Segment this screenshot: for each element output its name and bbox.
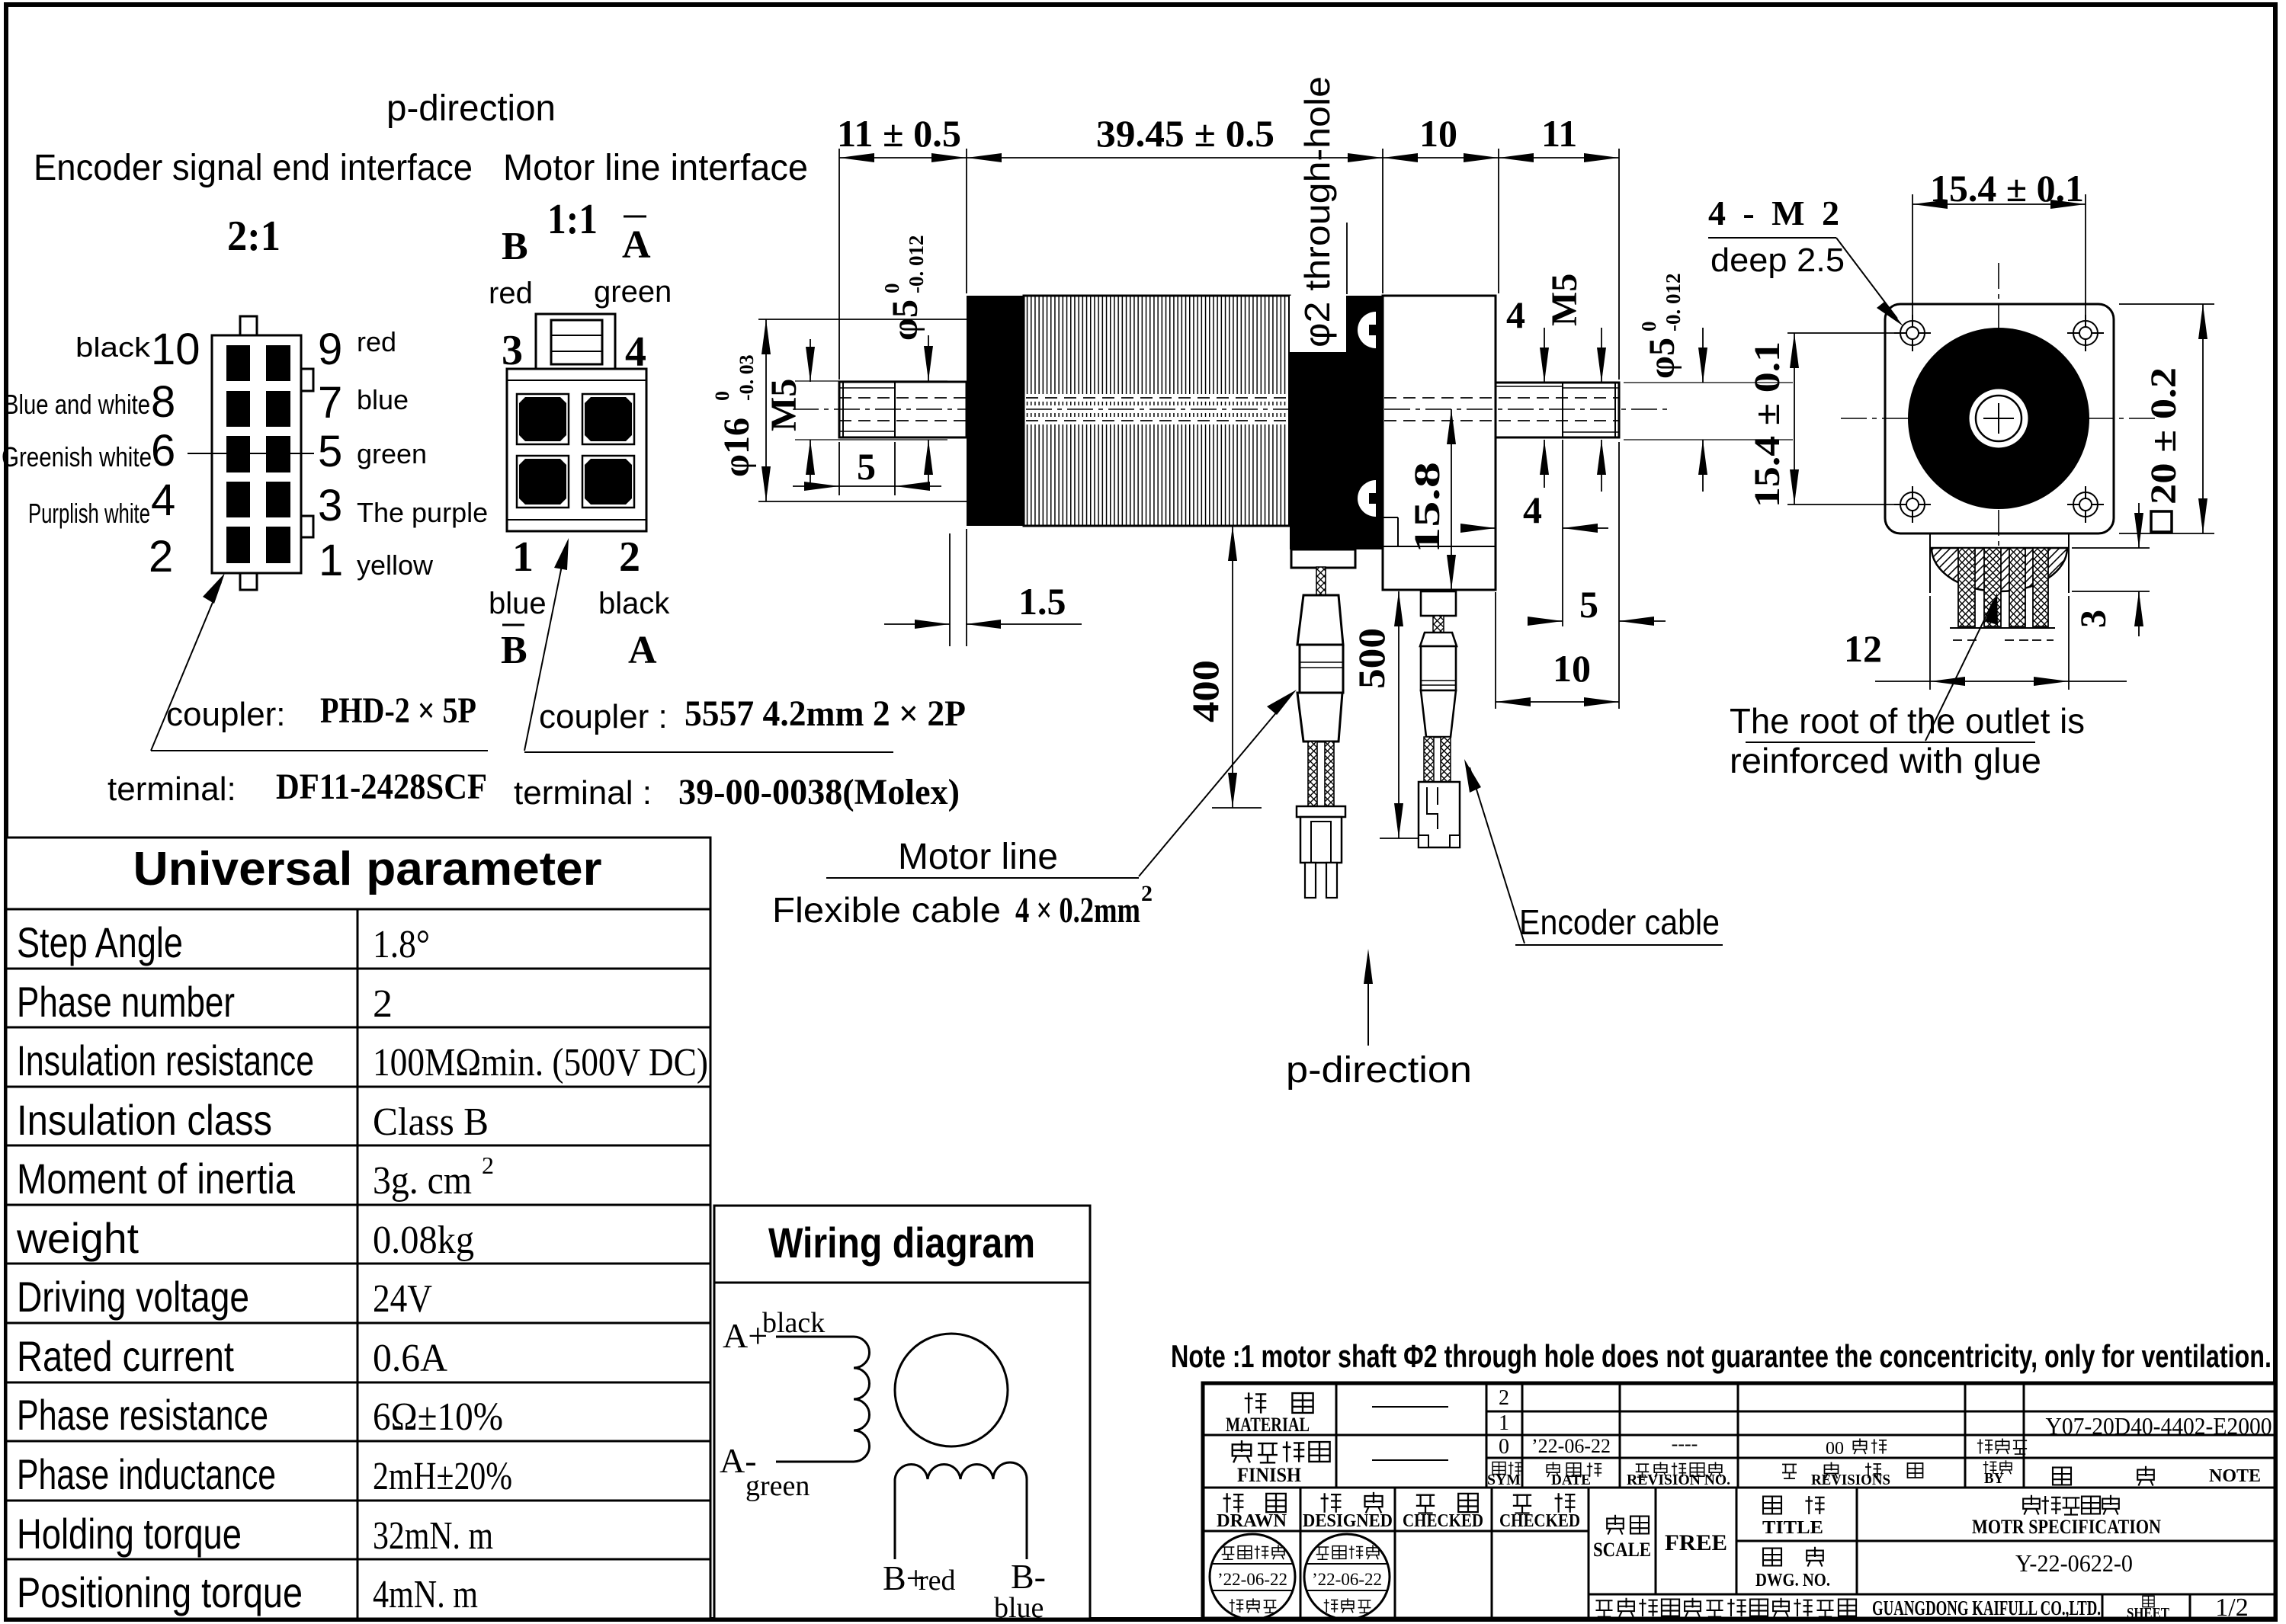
- encoder cable braid: [1433, 616, 1444, 633]
- svg-text:----: ----: [1672, 1433, 1698, 1455]
- svg-text:Blue and white: Blue and white: [4, 389, 150, 420]
- dim 5 (front thread length): [793, 442, 941, 495]
- encoder wires braided: [1424, 737, 1434, 782]
- encoder plug barrel: [1421, 646, 1456, 690]
- svg-text:Phase number: Phase number: [17, 978, 235, 1026]
- svg-text:00: 00: [1826, 1439, 1844, 1459]
- svg-text:Class B: Class B: [373, 1100, 489, 1144]
- svg-text:A: A: [622, 223, 651, 267]
- svg-text:3: 3: [2073, 610, 2114, 628]
- motor line wires braided: [1308, 742, 1317, 806]
- J2 pin 2 cavity: [582, 456, 634, 508]
- cell designed: [1321, 1493, 1342, 1513]
- screw hole bottom-left: [1894, 486, 1931, 523]
- svg-text:4 × 0.2mm: 4 × 0.2mm: [1015, 890, 1140, 931]
- p-direction arrow: [1367, 954, 1369, 1046]
- svg-text:green: green: [357, 438, 427, 469]
- svg-text:The purple: The purple: [357, 497, 488, 528]
- svg-text:400: 400: [1184, 660, 1226, 722]
- svg-text:Moment of inertia: Moment of inertia: [17, 1155, 296, 1203]
- cell checked1: [1416, 1495, 1435, 1513]
- title block frame: [1203, 1383, 2275, 1619]
- svg-text:1.8°: 1.8°: [373, 923, 430, 966]
- connector J1 encoder 10-pin body: [212, 316, 313, 590]
- svg-text:’22-06-22: ’22-06-22: [1217, 1570, 1287, 1589]
- encoder housing outline: [1383, 296, 1496, 590]
- front shaft thread root lines: [839, 387, 895, 389]
- cell sheet: [2143, 1596, 2154, 1606]
- motor rear shaft: [1496, 383, 1619, 437]
- svg-text:DRAWN: DRAWN: [1217, 1511, 1287, 1531]
- svg-text:Wiring diagram: Wiring diagram: [768, 1219, 1035, 1267]
- svg-text:0: 0: [880, 283, 903, 294]
- rear shaft thread root lines: [1563, 387, 1619, 389]
- svg-text:0.08kg: 0.08kg: [373, 1219, 474, 1262]
- svg-text:green: green: [594, 275, 672, 309]
- svg-text:NOTE: NOTE: [2209, 1466, 2261, 1486]
- header REVISIONS: [1782, 1465, 1797, 1479]
- svg-text:9: 9: [318, 325, 342, 374]
- svg-text:Purplish white: Purplish white: [28, 498, 150, 529]
- title value: [2023, 1495, 2040, 1515]
- svg-text:Y07-20D40-4402-E2000: Y07-20D40-4402-E2000: [2046, 1412, 2272, 1440]
- svg-text:red: red: [919, 1565, 956, 1597]
- svg-text:100MΩmin. (500V DC): 100MΩmin. (500V DC): [373, 1041, 708, 1084]
- svg-text:blue: blue: [489, 587, 547, 620]
- motor line cable braid: [1316, 567, 1326, 597]
- svg-text:φ2 through-hole: φ2 through-hole: [1297, 76, 1337, 348]
- label glue note: [1730, 593, 2085, 780]
- svg-text:Universal parameter: Universal parameter: [133, 843, 602, 895]
- svg-text:deep 2.5: deep 2.5: [1710, 242, 1845, 279]
- stamp designed circle: [1304, 1534, 1390, 1619]
- svg-text:Insulation resistance: Insulation resistance: [17, 1036, 314, 1084]
- svg-text:yellow: yellow: [357, 549, 434, 581]
- dim phi5 (rear): [1624, 274, 1793, 492]
- motor line plug boot lower: [1297, 693, 1342, 742]
- svg-text:0: 0: [1637, 322, 1660, 332]
- svg-text:5557 4.2mm 2 × 2P: 5557 4.2mm 2 × 2P: [685, 693, 966, 734]
- J1 pins column2: [266, 345, 290, 563]
- svg-text:Holding torque: Holding torque: [17, 1510, 242, 1558]
- leader Motor line: [1139, 697, 1290, 876]
- svg-text:0: 0: [711, 391, 733, 401]
- svg-text:B: B: [501, 629, 527, 672]
- svg-text:Driving voltage: Driving voltage: [17, 1273, 249, 1321]
- svg-text:2: 2: [619, 533, 640, 581]
- svg-text:black: black: [762, 1307, 825, 1339]
- rotor circle: [895, 1334, 1008, 1446]
- svg-text:2mH±20%: 2mH±20%: [373, 1455, 512, 1498]
- header DATE: [1547, 1462, 1560, 1477]
- svg-text:15.4 ± 0.1: 15.4 ± 0.1: [1747, 341, 1787, 508]
- svg-text:A: A: [628, 629, 657, 672]
- svg-text:M5: M5: [1544, 274, 1585, 326]
- svg-text:1/2: 1/2: [2215, 1594, 2248, 1622]
- svg-text:φ5: φ5: [885, 299, 925, 341]
- connector J2 motor line 4-pin body: [507, 369, 646, 531]
- svg-text:8: 8: [151, 377, 175, 427]
- svg-text:Positioning torque: Positioning torque: [17, 1568, 303, 1616]
- dim 39.45±0.5: [967, 112, 1383, 293]
- svg-text:SHEET: SHEET: [2127, 1605, 2170, 1622]
- dim 15.4±0.1 vertical: [1747, 333, 1906, 508]
- title block lower section lines: [1203, 1488, 2275, 1619]
- cell scale: [1607, 1515, 1624, 1535]
- svg-text:1: 1: [512, 533, 534, 581]
- svg-text:Flexible cable: Flexible cable: [772, 890, 1001, 930]
- encoder plug boot upper: [1420, 633, 1457, 646]
- svg-text:REVISIONS: REVISIONS: [1811, 1472, 1890, 1488]
- svg-text:M5: M5: [764, 379, 804, 431]
- svg-text:-0. 012: -0. 012: [1662, 274, 1685, 332]
- svg-text:Encoder cable: Encoder cable: [1519, 902, 1720, 942]
- svg-text:’22-06-22: ’22-06-22: [1531, 1435, 1611, 1457]
- svg-text:4: 4: [151, 476, 175, 525]
- svg-text:10: 10: [1553, 647, 1591, 690]
- svg-text:DESIGNED: DESIGNED: [1303, 1511, 1393, 1531]
- svg-text:black: black: [75, 332, 151, 363]
- motor front shaft: [839, 382, 967, 437]
- dim 15.8: [1407, 409, 1456, 590]
- main center line: [793, 408, 1669, 410]
- svg-text:7: 7: [318, 378, 342, 428]
- svg-text:2: 2: [1499, 1386, 1509, 1410]
- svg-text:blue: blue: [357, 384, 409, 415]
- svg-text:black: black: [598, 587, 670, 620]
- dim 11 (rear shaft): [1499, 112, 1619, 380]
- label phi2 through-hole: [1297, 76, 1337, 348]
- svg-text:red: red: [489, 277, 533, 310]
- connector J2 motor line 4-pin latch: [536, 314, 615, 369]
- front view square flange: [1885, 304, 2114, 533]
- svg-text:Encoder signal end interface: Encoder signal end interface: [34, 148, 473, 188]
- leader Encoder cable: [1470, 767, 1525, 943]
- svg-text:BY: BY: [1984, 1470, 2005, 1487]
- dim 5 (rear thread): [1528, 442, 1666, 709]
- encoder plug housing: [1419, 782, 1460, 847]
- svg-text:B-: B-: [1011, 1557, 1046, 1596]
- svg-text:10: 10: [1419, 112, 1457, 155]
- screw hole bottom-right: [2067, 486, 2104, 523]
- title block top section lines: [1203, 1383, 2275, 1488]
- svg-text:coupler:: coupler:: [166, 696, 286, 733]
- revision by name: [1977, 1439, 1993, 1453]
- svg-text:A+: A+: [723, 1316, 768, 1355]
- svg-text:11: 11: [1541, 112, 1577, 155]
- svg-text:1: 1: [319, 536, 343, 585]
- svg-text:24V: 24V: [373, 1277, 432, 1321]
- coil B: [895, 1462, 1027, 1559]
- rear cap screw pocket top: [1358, 312, 1392, 348]
- svg-text:4: 4: [1523, 488, 1542, 531]
- dim 4 (rear shaft length): [1460, 440, 1608, 533]
- dim M5 (front): [764, 339, 815, 484]
- front view center lines: [1841, 263, 2157, 579]
- svg-text:2: 2: [1141, 881, 1153, 906]
- svg-text:The root of the outlet is: The root of the outlet is: [1730, 701, 2085, 741]
- dim square 20±0.2: [2119, 304, 2214, 533]
- svg-text:blue: blue: [994, 1592, 1044, 1624]
- svg-text:SYM: SYM: [1487, 1472, 1521, 1488]
- svg-text:2: 2: [373, 982, 393, 1026]
- dim 500: [1350, 591, 1418, 838]
- stamp drawn circle: [1210, 1534, 1295, 1619]
- svg-text:2: 2: [482, 1152, 494, 1179]
- dim 4 (rear shaft dia upper): [1506, 293, 1549, 488]
- J1 mating center line: [188, 453, 314, 454]
- rear cap phi2 text notch: [1290, 296, 1346, 352]
- svg-text:weight: weight: [16, 1214, 139, 1262]
- svg-text:FREE: FREE: [1665, 1530, 1727, 1555]
- screw hole top-left: [1894, 315, 1931, 351]
- dim phi16: [711, 319, 967, 501]
- header REVISION NO: [1636, 1464, 1649, 1477]
- dim phi5 (front): [795, 235, 947, 488]
- svg-text:6Ω±10%: 6Ω±10%: [373, 1395, 503, 1439]
- svg-text:500: 500: [1350, 628, 1393, 689]
- leader to J1 coupler: [151, 582, 221, 751]
- svg-text:4mN. m: 4mN. m: [373, 1573, 478, 1616]
- svg-text:’22-06-22: ’22-06-22: [1312, 1570, 1382, 1589]
- svg-text:0: 0: [1499, 1435, 1509, 1459]
- svg-text:B: B: [502, 225, 528, 268]
- front shaft thread section line: [894, 382, 896, 437]
- dim 11±0.5: [837, 112, 1619, 380]
- universal parameter table frame: [6, 838, 710, 1619]
- svg-text:CHECKED: CHECKED: [1403, 1511, 1483, 1531]
- svg-text:p-direction: p-direction: [1286, 1050, 1472, 1091]
- motor line plug housing: [1297, 806, 1345, 898]
- cell material: [1245, 1392, 1267, 1413]
- label 4-M2 deep 2.5: [1708, 194, 1903, 326]
- svg-text:Y-22-0622-0: Y-22-0622-0: [2015, 1549, 2133, 1577]
- svg-text:green: green: [745, 1470, 810, 1502]
- svg-text:Motor line: Motor line: [898, 837, 1058, 877]
- svg-text:MOTR SPECIFICATION: MOTR SPECIFICATION: [1972, 1516, 2161, 1538]
- svg-text:11 ± 0.5: 11 ± 0.5: [837, 112, 961, 155]
- J2 pin 4 cavity: [582, 394, 634, 444]
- svg-text:FINISH: FINISH: [1237, 1464, 1301, 1486]
- outlet block below flange: [1930, 533, 2069, 593]
- svg-text:φ5: φ5: [1642, 338, 1682, 379]
- front view rotor black circle: [1908, 328, 2089, 509]
- svg-text:5: 5: [318, 427, 342, 476]
- coil A: [776, 1337, 870, 1462]
- phi2 through hole hidden lines: [839, 398, 1619, 421]
- wiring diagram box: [714, 1206, 1090, 1619]
- outlet pin end lines: [1950, 627, 2055, 629]
- svg-text:39.45 ± 0.5: 39.45 ± 0.5: [1096, 112, 1274, 155]
- svg-text:Step Angle: Step Angle: [17, 918, 183, 966]
- svg-text:10: 10: [151, 325, 200, 374]
- cell title: [1763, 1497, 1781, 1514]
- svg-text:terminal:: terminal:: [107, 770, 236, 808]
- front view shaft: [1968, 388, 2029, 449]
- svg-text:2:1: 2:1: [227, 213, 281, 260]
- svg-text:CHECKED: CHECKED: [1499, 1511, 1580, 1531]
- svg-text:4: 4: [625, 328, 646, 376]
- svg-text:DWG. NO.: DWG. NO.: [1755, 1571, 1830, 1590]
- svg-text:-0. 03: -0. 03: [736, 354, 758, 401]
- svg-text:0.6A: 0.6A: [373, 1337, 447, 1380]
- svg-text:p-direction: p-direction: [386, 88, 556, 129]
- dim 15.4±0.1 horizontal: [1912, 167, 2086, 324]
- screw hole top-right: [2067, 315, 2104, 351]
- header BY: [1983, 1461, 1997, 1474]
- svg-text:15.4 ± 0.1: 15.4 ± 0.1: [1930, 167, 2084, 210]
- dim 12: [1844, 596, 2127, 690]
- svg-text:Insulation class: Insulation class: [17, 1096, 272, 1144]
- encoder plug boot lower: [1421, 690, 1456, 737]
- svg-text:5: 5: [857, 445, 876, 488]
- dim 10 (rear housing): [1383, 112, 1499, 293]
- header SYM: [1492, 1462, 1505, 1475]
- svg-text:TITLE: TITLE: [1762, 1518, 1823, 1538]
- svg-text:Phase resistance: Phase resistance: [17, 1391, 268, 1439]
- rear cap screw pocket bottom: [1358, 480, 1392, 517]
- cell checked2: [1513, 1495, 1531, 1513]
- svg-text:-0. 012: -0. 012: [905, 235, 928, 294]
- glue blob hatched: [1932, 548, 2067, 591]
- dim 3: [2072, 503, 2150, 636]
- dim M5 (rear): [1544, 274, 1606, 492]
- motor line plug barrel: [1300, 645, 1343, 693]
- svg-text:Motor line interface: Motor line interface: [503, 148, 808, 188]
- header NOTE: [2053, 1468, 2071, 1485]
- svg-text:4: 4: [1506, 293, 1525, 336]
- outlet pins: [1958, 548, 2048, 626]
- motor line plug boot upper: [1297, 595, 1343, 645]
- svg-text:1.5: 1.5: [1018, 580, 1066, 623]
- company name: [1595, 1600, 1612, 1616]
- svg-text:SCALE: SCALE: [1593, 1539, 1651, 1561]
- svg-text:red: red: [357, 326, 396, 357]
- svg-text:coupler :: coupler :: [539, 698, 668, 735]
- svg-text:5: 5: [1579, 583, 1598, 626]
- svg-text:Phase inductance: Phase inductance: [17, 1450, 276, 1498]
- svg-text:12: 12: [1844, 627, 1882, 670]
- J2 pin 3 cavity: [517, 394, 569, 444]
- svg-text:DATE: DATE: [1551, 1472, 1591, 1488]
- phi2 leader line: [1346, 223, 1348, 294]
- svg-text:φ16: φ16: [717, 418, 757, 477]
- svg-text:2: 2: [149, 532, 173, 581]
- svg-text:REVISION NO.: REVISION NO.: [1627, 1472, 1730, 1488]
- svg-text:terminal :: terminal :: [514, 774, 652, 812]
- svg-text:3: 3: [318, 481, 342, 530]
- rear shaft thread section line: [1562, 383, 1563, 437]
- cell drawn: [1223, 1493, 1244, 1513]
- svg-text:GUANGDONG KAIFULL CO.,LTD.: GUANGDONG KAIFULL CO.,LTD.: [1872, 1597, 2101, 1619]
- svg-text:MATERIAL: MATERIAL: [1226, 1414, 1310, 1436]
- svg-text:DF11-2428SCF: DF11-2428SCF: [276, 767, 487, 807]
- svg-text:1: 1: [1499, 1411, 1509, 1435]
- svg-text:reinforced with glue: reinforced with glue: [1730, 741, 2041, 780]
- svg-text:Note :1 motor shaft Φ2 through: Note :1 motor shaft Φ2 through hole does…: [1171, 1338, 2272, 1374]
- cell finish: [1233, 1440, 1251, 1462]
- J1 pins column1: [226, 345, 250, 563]
- svg-text:Rated current: Rated current: [17, 1332, 234, 1380]
- svg-text:6: 6: [151, 426, 175, 476]
- svg-text:PHD-2 × 5P: PHD-2 × 5P: [320, 690, 476, 731]
- rear shaft flat line: [1496, 386, 1563, 387]
- svg-text:20 ± 0.2: 20 ± 0.2: [2143, 367, 2184, 504]
- motor line cable exit block: [1291, 549, 1355, 568]
- svg-text:3g. cm: 3g. cm: [373, 1159, 472, 1203]
- motor front end cap: [967, 296, 1024, 526]
- encoder cable exit block: [1421, 591, 1456, 616]
- J2 pin 1 cavity: [517, 456, 569, 508]
- svg-text:3: 3: [502, 327, 523, 374]
- cell dwg no: [1763, 1549, 1781, 1566]
- motor rear end cap: [1290, 296, 1383, 549]
- dim 1.5: [884, 529, 1082, 646]
- svg-text:1:1: 1:1: [547, 196, 598, 243]
- svg-text:Greenish white: Greenish white: [2, 441, 152, 472]
- svg-text:32mN. m: 32mN. m: [373, 1514, 493, 1558]
- svg-text:39-00-0038(Molex): 39-00-0038(Molex): [678, 772, 960, 812]
- leader to J2 coupler: [524, 547, 566, 751]
- dim 400: [1184, 526, 1262, 808]
- dim 10 (rear shaft total): [1496, 592, 1619, 709]
- svg-text:15.8: 15.8: [1407, 462, 1448, 553]
- motor stator lamination: [1024, 296, 1290, 526]
